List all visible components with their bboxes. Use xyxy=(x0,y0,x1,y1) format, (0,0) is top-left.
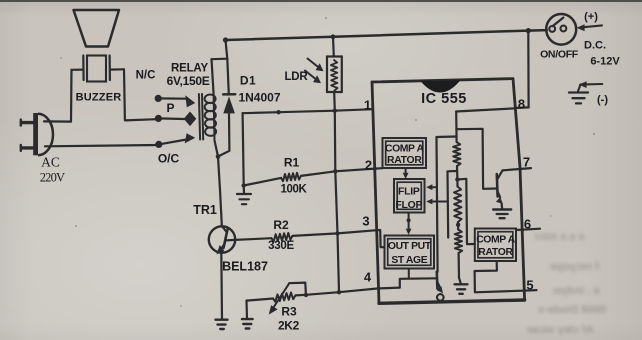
svg-text:6-12V: 6-12V xyxy=(590,56,620,68)
svg-text:COMP A: COMP A xyxy=(385,144,424,155)
svg-text:4: 4 xyxy=(364,270,372,285)
svg-text:R2: R2 xyxy=(273,218,289,232)
svg-text:6: 6 xyxy=(524,217,531,232)
svg-text:D1: D1 xyxy=(240,74,256,88)
svg-text:6V,150E: 6V,150E xyxy=(167,74,210,88)
svg-text:R1: R1 xyxy=(284,156,300,170)
svg-text:N/C: N/C xyxy=(136,70,156,82)
svg-text:ST AGE: ST AGE xyxy=(391,255,427,266)
svg-text:2K2: 2K2 xyxy=(278,319,300,333)
svg-text:1N4007: 1N4007 xyxy=(238,91,280,105)
svg-text:2: 2 xyxy=(365,158,372,173)
svg-text:D.C.: D.C. xyxy=(584,40,606,52)
svg-text:330E: 330E xyxy=(268,240,294,252)
svg-text:O/C: O/C xyxy=(158,152,180,166)
svg-text:RATOR: RATOR xyxy=(478,247,513,258)
svg-text:OUT PUT: OUT PUT xyxy=(388,241,432,252)
svg-text:P: P xyxy=(166,101,174,115)
svg-text:TR1: TR1 xyxy=(193,203,217,217)
svg-text:R3: R3 xyxy=(281,305,297,319)
svg-text:100K: 100K xyxy=(281,184,308,196)
svg-text:(-): (-) xyxy=(597,94,608,106)
svg-text:IC 555: IC 555 xyxy=(421,91,467,107)
svg-text:1: 1 xyxy=(364,98,371,113)
svg-text:(+): (+) xyxy=(584,11,598,23)
svg-text:220V: 220V xyxy=(40,171,65,185)
svg-text:RELAY: RELAY xyxy=(171,63,208,75)
svg-text:LDR: LDR xyxy=(284,71,308,83)
svg-text:BUZZER: BUZZER xyxy=(76,92,122,104)
svg-text:AC: AC xyxy=(41,155,60,170)
svg-text:ON/OFF: ON/OFF xyxy=(540,49,579,61)
svg-text:3: 3 xyxy=(362,214,369,229)
svg-text:COMP A: COMP A xyxy=(476,234,515,245)
svg-text:RATOR: RATOR xyxy=(387,155,422,166)
svg-text:FLOP: FLOP xyxy=(395,200,422,211)
svg-text:FLIP: FLIP xyxy=(398,187,420,198)
svg-text:BEL187: BEL187 xyxy=(222,260,268,274)
svg-text:8: 8 xyxy=(518,97,525,112)
